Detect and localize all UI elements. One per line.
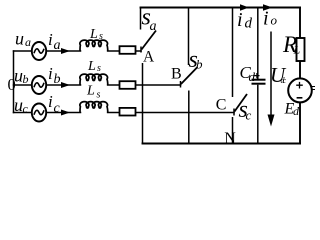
current arrow ib (61, 82, 70, 88)
switch sc pole tick (233, 109, 235, 116)
inductor Ls phase c (80, 102, 108, 113)
switch sc blade (235, 94, 248, 112)
svg-text:b: b (23, 72, 29, 86)
svg-text:B: B (171, 66, 182, 83)
svg-text:L: L (89, 27, 98, 42)
svg-text:i: i (48, 92, 53, 111)
switch sb upper throw wire (188, 8, 190, 66)
wire phase a (14, 50, 33, 52)
dc source Ed minus mark (297, 97, 303, 99)
dc source Ed plus mark (296, 82, 303, 89)
svg-text:b: b (196, 57, 203, 72)
svg-text:i: i (48, 64, 53, 83)
inductor Ls phase a (80, 40, 108, 51)
svg-text:L: L (87, 59, 96, 74)
current arrow io (263, 4, 273, 10)
inductor Ls phase b (80, 74, 108, 85)
svg-text:a: a (25, 35, 31, 49)
svg-text:b: b (54, 72, 61, 87)
svg-text:a: a (150, 19, 157, 34)
current arrow id (240, 4, 249, 10)
capacitor Cd lower wire (257, 85, 259, 144)
switch sb lower throw wire to N (188, 91, 190, 144)
svg-text:o: o (271, 13, 278, 28)
svg-text:i: i (263, 8, 269, 30)
svg-text:dc: dc (281, 76, 287, 85)
svg-text:L: L (293, 43, 301, 57)
svg-text:L: L (86, 84, 95, 99)
switch sa blade (142, 31, 157, 50)
svg-text:s: s (97, 63, 101, 74)
capacitor Cd plates (252, 79, 266, 81)
svg-text:c: c (54, 101, 61, 116)
svg-text:N: N (224, 130, 236, 147)
wire phase b (14, 84, 33, 86)
capacitor Cd upper wire (257, 8, 259, 80)
svg-text:0: 0 (8, 75, 16, 94)
switch sb blade (181, 67, 198, 84)
svg-text:c: c (23, 102, 29, 116)
ac source uc (32, 104, 46, 122)
svg-text:d: d (293, 104, 300, 118)
wire bottom bus N (143, 143, 301, 145)
svg-text:i: i (48, 30, 53, 49)
dc source Ed circle (288, 78, 312, 102)
switch sc lower throw wire to N (232, 117, 234, 144)
svg-text:s: s (99, 31, 103, 42)
svg-text:i: i (237, 9, 243, 31)
svg-text:d: d (245, 16, 253, 32)
current arrow ic (61, 110, 70, 116)
node 0 neutral vertical wire (13, 51, 15, 113)
switch sa upper throw wire (140, 8, 142, 30)
voltage arrow Ud line (270, 32, 272, 119)
svg-text:u: u (15, 29, 24, 49)
ac source ub (32, 76, 46, 94)
switch sc upper throw wire (232, 8, 234, 98)
dc tick right of Ed (312, 87, 316, 90)
svg-text:C: C (216, 96, 227, 113)
svg-text:c: c (246, 108, 252, 123)
resistor box phase c (120, 108, 136, 116)
resistor box phase a (120, 46, 136, 54)
current arrow ia (61, 48, 70, 54)
load resistor RL box (297, 38, 305, 61)
svg-text:d: d (249, 69, 256, 84)
svg-text:a: a (54, 38, 61, 53)
wire phase c (14, 112, 33, 114)
svg-text:A: A (143, 48, 155, 65)
voltage arrow Ud head (268, 115, 275, 127)
resistor box phase b (120, 81, 136, 89)
wire top bus (141, 7, 301, 9)
svg-text:s: s (97, 90, 101, 101)
capacitor Cd plus polarity mark (254, 73, 259, 78)
wire right load branch (299, 8, 301, 144)
switch sa pole tick (140, 47, 142, 53)
switch sb pole tick (180, 81, 182, 88)
switch sa lower throw wire to N (142, 63, 144, 144)
ac source ua (32, 42, 46, 60)
